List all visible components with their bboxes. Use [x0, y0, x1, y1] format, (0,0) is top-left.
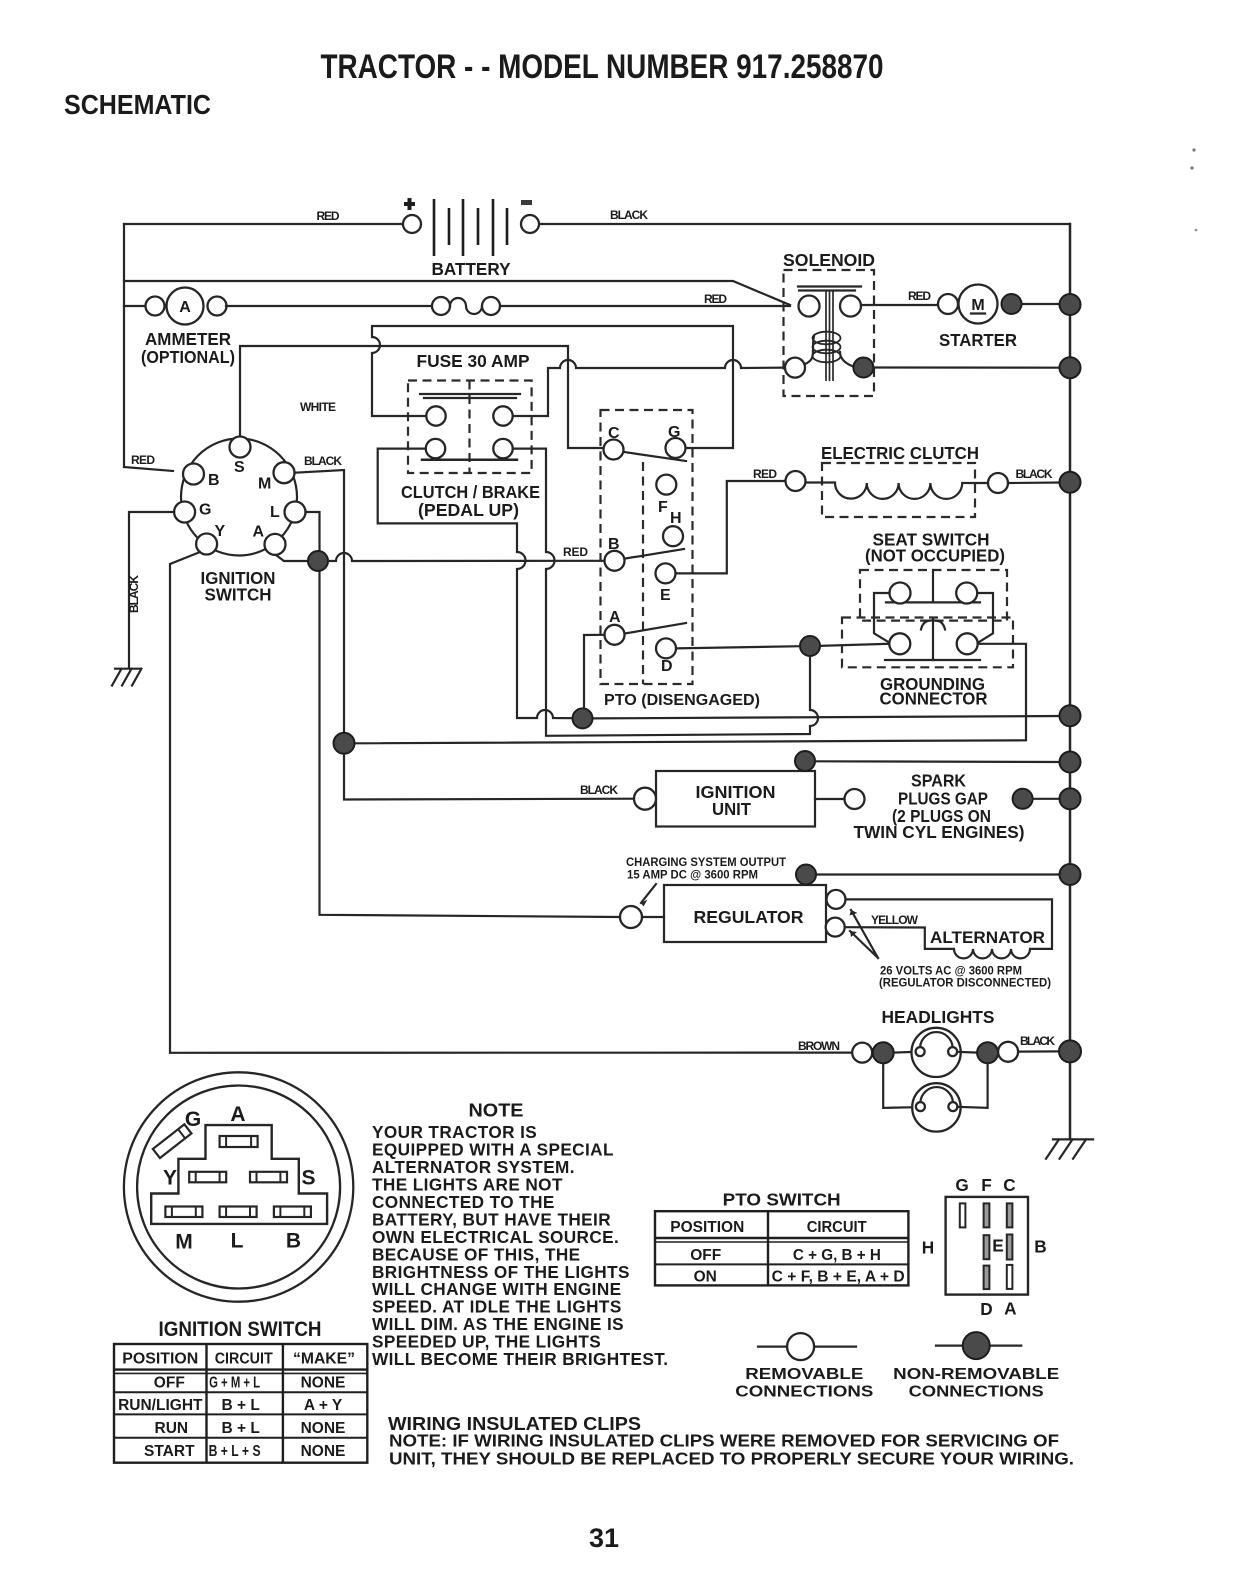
svg-text:UNIT, THEY SHOULD BE REPLACED: UNIT, THEY SHOULD BE REPLACED TO PROPERL… — [389, 1449, 1074, 1469]
ignition unit input terminal — [634, 788, 656, 810]
svg-text:REGULATOR: REGULATOR — [694, 907, 805, 927]
svg-text:CONNECTOR: CONNECTOR — [880, 689, 989, 709]
PTO connector blade B-row right — [1007, 1235, 1013, 1260]
PTO switch table — [655, 1211, 908, 1285]
node PTO A junction (non-removable) — [573, 708, 593, 728]
battery negative mark — [521, 200, 532, 205]
wire lamp 2 branch right — [957, 1063, 987, 1108]
wire seat left to grounding left — [874, 593, 890, 643]
node grounding junction (non-removable) — [800, 636, 820, 656]
ignition switch S1 body outline — [181, 439, 297, 556]
node bus-spark junction — [1060, 788, 1081, 809]
wire solenoid coil to bus — [873, 366, 1070, 368]
svg-text:NOTE: IF WIRING INSULATED CLIP: NOTE: IF WIRING INSULATED CLIPS WERE REM… — [389, 1431, 1059, 1451]
PTO internal dashed divider — [642, 462, 644, 684]
connector pin B — [274, 1207, 311, 1218]
PTO contact A — [605, 625, 625, 645]
wire ignition A to junction — [276, 555, 308, 561]
svg-text:BLACK: BLACK — [1020, 1034, 1055, 1048]
svg-text:31: 31 — [589, 1523, 619, 1553]
svg-text:A: A — [179, 299, 191, 316]
wire grounding right to black rail — [354, 644, 1026, 744]
connector pin L — [220, 1207, 257, 1218]
svg-text:(REGULATOR DISCONNECTED): (REGULATOR DISCONNECTED) — [879, 978, 1051, 990]
svg-text:START: START — [144, 1443, 195, 1460]
node spark gap electrode (non-removable) — [1013, 789, 1033, 809]
wire left rail to ignition B (RED) — [124, 467, 173, 471]
wire PTO D to grounding junction — [676, 646, 800, 648]
starter input terminal — [938, 294, 958, 314]
PTO moving contact A — [625, 623, 686, 634]
wire junction down to regulator — [320, 570, 621, 917]
svg-text:STARTER: STARTER — [939, 330, 1018, 350]
seat switch contact bar — [886, 601, 980, 603]
wire ammeter feed — [124, 305, 146, 307]
wire ignition M to black rail — [295, 470, 345, 733]
node headlight left (non-removable) — [873, 1042, 894, 1063]
ignition pin Y — [196, 534, 217, 555]
svg-text:NONE: NONE — [301, 1420, 346, 1437]
wire fuse to solenoid — [500, 305, 790, 307]
svg-text:15 AMP DC @ 3600 RPM: 15 AMP DC @ 3600 RPM — [627, 870, 758, 882]
wire ignition Y down to headlights — [170, 552, 852, 1053]
svg-text:BLACK: BLACK — [304, 454, 342, 468]
regulator U2 box — [664, 885, 826, 942]
ground symbol (main bus) — [1046, 1139, 1093, 1158]
svg-text:C + G, B + H: C + G, B + H — [793, 1247, 881, 1264]
svg-text:A: A — [230, 1103, 245, 1126]
node bus-charging junction — [1060, 864, 1081, 885]
grounding connector terminal left — [889, 633, 910, 654]
ammeter A1 — [167, 288, 204, 325]
svg-text:ALTERNATOR: ALTERNATOR — [930, 928, 1045, 947]
solenoid K1 dashed box — [784, 270, 875, 396]
svg-text:RED: RED — [704, 292, 727, 306]
wire regulator top to bus — [816, 873, 1062, 875]
svg-text:AMMETER: AMMETER — [145, 329, 232, 349]
legend removable connection symbol — [758, 1345, 856, 1347]
clutch/brake terminal top-right — [493, 406, 512, 425]
svg-text:BLACK: BLACK — [127, 575, 141, 613]
svg-text:RED: RED — [131, 453, 155, 467]
PTO contact E — [656, 563, 676, 583]
ignition unit output terminal — [845, 789, 865, 809]
PTO contact G — [666, 438, 686, 458]
wire clutch top-right to solenoid coil — [513, 360, 785, 416]
svg-text:“MAKE”: “MAKE” — [293, 1351, 355, 1368]
wire grounding junction to seat connector — [820, 644, 889, 646]
node headlight right (non-removable) — [977, 1042, 998, 1063]
wire battery negative to right bus (BLACK) — [539, 223, 1070, 225]
grounding connector terminal right — [957, 633, 978, 654]
clutch/brake switch S2 dashed box — [408, 381, 532, 474]
seat switch plunger — [932, 570, 934, 602]
seat switch terminal right — [956, 583, 977, 604]
svg-text:SPARK: SPARK — [911, 771, 967, 791]
grounding connector plunger and seat — [921, 619, 945, 660]
headlight right terminal — [998, 1042, 1018, 1062]
svg-text:UNIT: UNIT — [712, 799, 751, 819]
svg-text:CHARGING SYSTEM OUTPUT: CHARGING SYSTEM OUTPUT — [626, 857, 786, 869]
svg-text:G: G — [668, 424, 680, 441]
charging annotation arrow — [641, 884, 656, 903]
svg-text:BATTERY: BATTERY — [432, 259, 512, 279]
regulator input terminal — [620, 906, 642, 928]
PTO contact C — [604, 440, 624, 460]
node black rail junction (non-removable) — [334, 733, 355, 754]
scan speckles — [1192, 148, 1195, 151]
node bus-clutch junction — [1060, 472, 1081, 493]
PTO contact D — [656, 638, 676, 658]
battery plus symbol — [404, 198, 415, 210]
grounding connector dashed box — [842, 618, 1013, 668]
electric clutch right terminal — [988, 473, 1008, 493]
svg-text:M: M — [258, 476, 271, 493]
wire junction to PTO B (RED) — [328, 553, 604, 561]
PTO connector blade G — [960, 1203, 966, 1227]
ignition pin A — [265, 534, 286, 555]
svg-text:SCHEMATIC: SCHEMATIC — [64, 89, 211, 120]
svg-text:S: S — [301, 1167, 315, 1190]
svg-text:CONNECTIONS: CONNECTIONS — [909, 1384, 1044, 1401]
svg-text:A + Y: A + Y — [304, 1397, 343, 1414]
wire clutch top-left feeder (white loop) — [372, 326, 733, 448]
svg-text:B: B — [286, 1230, 301, 1253]
starter output node (non-removable) — [1002, 294, 1022, 314]
clutch/brake terminal top-left — [426, 406, 445, 425]
svg-text:M: M — [175, 1231, 193, 1254]
svg-text:(PEDAL UP): (PEDAL UP) — [418, 500, 519, 520]
svg-text:ON: ON — [694, 1269, 717, 1286]
svg-text:E: E — [992, 1236, 1003, 1256]
wire ignition unit top to bus — [815, 760, 1062, 763]
svg-text:S: S — [234, 459, 245, 476]
seat switch terminal left — [890, 583, 911, 604]
regulator AC terminal bottom — [826, 918, 845, 937]
fuse F1 30 amp — [432, 297, 450, 315]
svg-text:REMOVABLE: REMOVABLE — [745, 1366, 863, 1383]
solenoid left contact terminal — [799, 296, 820, 317]
svg-text:BLACK: BLACK — [580, 783, 618, 797]
clutch/brake top contact bars — [420, 394, 520, 398]
svg-text:Y: Y — [163, 1167, 177, 1190]
wire clutch bottom-left to PTO A rail — [378, 449, 573, 719]
solenoid coil — [805, 351, 813, 364]
PTO connector labels — [922, 1175, 1047, 1319]
wire to lamp 1 — [894, 1051, 916, 1054]
ignition switch table — [114, 1344, 367, 1463]
svg-text:G: G — [955, 1175, 968, 1195]
wire clutch bottom-right to grounding rail — [513, 449, 818, 736]
svg-text:BLACK: BLACK — [610, 208, 648, 222]
svg-text:G: G — [199, 502, 211, 519]
solenoid coil left terminal — [785, 358, 805, 378]
svg-text:F: F — [981, 1175, 992, 1195]
ignition unit U1 box — [656, 771, 815, 827]
svg-text:C: C — [608, 425, 620, 442]
node bus-starter junction — [1060, 294, 1081, 315]
node bus junction — [1060, 752, 1081, 773]
svg-text:SOLENOID: SOLENOID — [783, 250, 875, 270]
svg-text:TWIN CYL ENGINES): TWIN CYL ENGINES) — [854, 822, 1025, 842]
PTO connector blade C — [1007, 1203, 1013, 1227]
PTO connector blade F — [984, 1203, 990, 1227]
svg-text:OFF: OFF — [154, 1375, 185, 1392]
grounding connector bottom bar — [885, 659, 980, 661]
wire left rail vertical — [123, 224, 125, 467]
svg-text:(OPTIONAL): (OPTIONAL) — [141, 347, 235, 367]
clutch/brake terminal bottom-right — [493, 439, 512, 458]
svg-text:C: C — [1003, 1175, 1015, 1195]
regulator top output node (non-removable) — [796, 865, 816, 885]
wire ignition S to PTO C — [240, 346, 604, 448]
svg-text:POSITION: POSITION — [122, 1351, 198, 1368]
svg-text:RED: RED — [317, 209, 340, 223]
ignition pin L — [285, 502, 306, 523]
svg-text:BLACK: BLACK — [1016, 467, 1053, 481]
svg-text:CONNECTIONS: CONNECTIONS — [735, 1384, 873, 1401]
svg-text:C + F, B + E, A + D: C + F, B + E, A + D — [772, 1269, 905, 1286]
PTO connector blade H-row left — [984, 1235, 990, 1259]
svg-text:F: F — [658, 499, 668, 516]
ignition unit top output node (non-removable) — [795, 751, 815, 771]
wire lamp1 to right node — [957, 1051, 977, 1054]
wire spark gap — [1033, 798, 1060, 800]
svg-text:E: E — [660, 587, 671, 604]
svg-text:POSITION: POSITION — [670, 1219, 744, 1236]
seat switch S4 dashed box — [860, 570, 1007, 621]
PTO contact B — [605, 551, 625, 571]
wire PTO E to electric clutch — [676, 481, 786, 573]
wire battery positive to left rail (RED) — [124, 223, 403, 225]
node bus-solenoid coil junction — [1060, 357, 1081, 378]
svg-text:WILL BECOME THEIR BRIGHTEST.: WILL BECOME THEIR BRIGHTEST. — [372, 1349, 668, 1369]
wire rail junction down to ignition unit — [344, 754, 634, 800]
svg-text:D: D — [980, 1299, 992, 1319]
starter motor M1 — [959, 285, 998, 324]
wire lamp 2 branch left — [883, 1063, 916, 1108]
svg-text:H: H — [670, 510, 682, 527]
svg-text:B + L + S: B + L + S — [209, 1443, 261, 1460]
wire PTO A-rail to right bus — [592, 716, 1062, 718]
svg-text:Y: Y — [215, 523, 226, 540]
svg-text:A: A — [1004, 1299, 1016, 1319]
svg-text:(NOT OCCUPIED): (NOT OCCUPIED) — [865, 546, 1005, 566]
wire ignition unit output to spark plugs — [815, 798, 844, 800]
PTO connector blade D — [984, 1266, 990, 1290]
svg-text:TRACTOR - - MODEL NUMBER 917.2: TRACTOR - - MODEL NUMBER 917.258870 — [321, 48, 884, 86]
svg-text:B + L: B + L — [222, 1397, 260, 1414]
ignition switch connector outer ring — [124, 1072, 353, 1301]
clutch/brake bottom contact bar — [422, 459, 517, 462]
ignition switch connector inner ring — [137, 1086, 340, 1289]
svg-text:H: H — [922, 1238, 934, 1258]
legend non-removable connection symbol — [936, 1344, 1021, 1346]
PTO connector blade A — [1007, 1265, 1013, 1289]
solenoid right contact terminal — [840, 296, 861, 317]
alternator G1 outline with coil — [845, 899, 1052, 958]
svg-text:CLUTCH / BRAKE: CLUTCH / BRAKE — [401, 482, 540, 502]
svg-text:SWITCH: SWITCH — [205, 585, 272, 605]
svg-text:ELECTRIC CLUTCH: ELECTRIC CLUTCH — [821, 443, 979, 463]
ground symbol (ignition) — [112, 669, 141, 686]
lamp DS1 — [912, 1028, 961, 1077]
svg-text:A: A — [253, 524, 265, 541]
electric clutch left terminal — [786, 471, 806, 491]
svg-text:CIRCUIT: CIRCUIT — [215, 1351, 273, 1368]
svg-text:FUSE 30 AMP: FUSE 30 AMP — [417, 351, 530, 371]
svg-text:L: L — [231, 1230, 244, 1253]
connector pin Y — [189, 1172, 226, 1183]
solenoid contact bars — [798, 287, 861, 291]
svg-text:OFF: OFF — [690, 1247, 721, 1264]
lamp DS2 — [912, 1083, 960, 1131]
wire clutch to bus — [1008, 481, 1062, 484]
PTO contact H — [663, 526, 683, 546]
electric clutch L1 dashed box — [822, 463, 975, 517]
wire PTO A to junction — [584, 635, 605, 709]
solenoid plunger — [826, 290, 833, 381]
svg-text:NON-REMOVABLE: NON-REMOVABLE — [893, 1366, 1059, 1383]
wire ignition G to ground (BLACK) — [129, 512, 174, 667]
solenoid coil ground terminal (non-removable) — [853, 358, 873, 378]
node bus-headlight junction — [1059, 1040, 1081, 1062]
node L/A junction (non-removable) — [308, 551, 328, 571]
svg-text:B: B — [208, 472, 220, 489]
svg-text:26 VOLTS AC @ 3600 RPM: 26 VOLTS AC @ 3600 RPM — [880, 966, 1022, 978]
svg-text:B + L: B + L — [222, 1420, 260, 1437]
PTO connector box — [946, 1197, 1028, 1295]
connector G key slot — [153, 1124, 192, 1158]
node battery negative terminal — [521, 215, 539, 233]
ammeter right terminal — [208, 297, 227, 316]
wire red bus to solenoid — [124, 281, 790, 305]
svg-text:RED: RED — [753, 467, 777, 481]
svg-text:G + M + L: G + M + L — [209, 1375, 260, 1392]
ignition pin M — [274, 462, 295, 483]
wire right bus vertical — [1069, 224, 1072, 1139]
wire ignition L down to junction — [306, 512, 320, 552]
svg-text:YELLOW: YELLOW — [871, 913, 919, 927]
clutch/brake internal dashed divider — [468, 381, 470, 474]
svg-text:BROWN: BROWN — [798, 1039, 840, 1053]
svg-text:IGNITION SWITCH: IGNITION SWITCH — [159, 1317, 322, 1341]
wire headlight to bus — [1018, 1050, 1062, 1052]
svg-text:RUN/LIGHT: RUN/LIGHT — [118, 1397, 203, 1414]
svg-text:NONE: NONE — [301, 1375, 346, 1392]
note paragraph — [372, 1122, 668, 1369]
connector pin A — [220, 1136, 258, 1147]
connector pin S — [250, 1172, 287, 1183]
electric clutch coil — [806, 483, 989, 499]
battery B1 plates — [434, 199, 507, 256]
ignition pin B — [183, 464, 204, 485]
svg-text:L: L — [270, 504, 280, 521]
svg-text:NONE: NONE — [301, 1443, 346, 1460]
svg-text:D: D — [661, 658, 673, 675]
svg-text:HEADLIGHTS: HEADLIGHTS — [882, 1007, 995, 1027]
wire ammeter to fuse — [226, 305, 432, 307]
ignition pin S — [230, 437, 251, 458]
svg-text:PTO (DISENGAGED): PTO (DISENGAGED) — [604, 692, 760, 709]
svg-text:B: B — [608, 536, 620, 553]
wire seat right to grounding right — [977, 593, 993, 643]
svg-text:RED: RED — [563, 545, 588, 559]
PTO contact F — [656, 475, 676, 495]
wire solenoid to starter (RED) — [861, 304, 938, 306]
svg-text:RED: RED — [908, 289, 931, 303]
connector pin M — [165, 1207, 202, 1218]
node battery positive terminal — [403, 215, 421, 233]
svg-text:G: G — [185, 1108, 201, 1131]
svg-text:M: M — [971, 297, 984, 314]
svg-text:A: A — [609, 609, 621, 626]
PTO switch S3 dashed box — [601, 410, 693, 684]
wire regulator input stub — [642, 916, 664, 918]
svg-text:NOTE: NOTE — [469, 1101, 524, 1121]
svg-text:PTO SWITCH: PTO SWITCH — [723, 1190, 841, 1210]
headlight left terminal — [852, 1043, 872, 1063]
regulator AC terminal top — [827, 890, 846, 909]
connector key housing outline — [151, 1125, 327, 1224]
alternator annotation arrows — [850, 910, 878, 958]
wire starter to bus — [1022, 303, 1063, 305]
svg-text:WHITE: WHITE — [300, 400, 336, 414]
svg-text:B: B — [1034, 1237, 1046, 1257]
svg-text:RUN: RUN — [155, 1420, 189, 1437]
PTO moving contact C-G — [624, 452, 686, 461]
ignition pin G — [174, 502, 195, 523]
svg-text:CIRCUIT: CIRCUIT — [807, 1219, 868, 1236]
ammeter left terminal — [146, 297, 165, 316]
PTO moving contact B — [626, 549, 685, 559]
clutch/brake terminal bottom-left — [426, 439, 445, 458]
node bus junction at A rail — [1060, 705, 1081, 726]
